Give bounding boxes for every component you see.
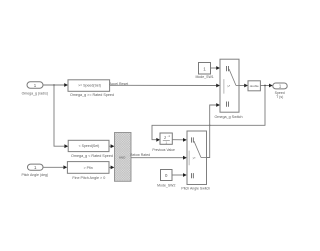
label Speed T (s) [275,91,285,99]
svg-text:< Speed(Set): < Speed(Set) [79,144,100,148]
switch U2 Pitch Angle Switch [187,131,207,185]
wire double to outport [260,84,272,88]
svg-text:Mode_SW1: Mode_SW1 [195,75,213,79]
inport Pitch Angle (deg) [28,164,44,170]
node junction after double [264,85,266,87]
data type conversion double [248,81,260,91]
wire Below Rated to Pitch Angle Switch [131,156,187,160]
compare block Omega_g >= Rated Speed [68,80,110,92]
wire Pitch Angle Switch output up to Omega_g Switch input 3 [207,103,221,157]
svg-text:Omega_g Switch: Omega_g Switch [214,115,242,119]
svg-text:Mode_SW2: Mode_SW2 [157,183,175,187]
wire feedback from output down to Previous Value [152,86,265,142]
wire Previous Value to Pitch Angle Switch [172,138,187,142]
svg-text:T (s): T (s) [276,95,283,99]
wire inport1 to compare block [43,83,68,87]
svg-text:Fine Pitch Angle > 0: Fine Pitch Angle > 0 [72,176,105,180]
wire junction down to lower compare block [54,85,68,148]
wire Omega_g Switch to double [239,84,248,88]
inport Omega_g (rad/s) [27,82,43,88]
wire Accel Reset to Omega_g Switch [110,84,220,88]
logical operator AND [115,133,132,182]
svg-text:double: double [250,84,259,88]
svg-text:Pitch Angle (deg): Pitch Angle (deg) [21,173,48,177]
node junction on Omega_g wire [53,84,55,86]
switch U1 Omega_g Switch [220,59,239,112]
svg-text:Below Rated: Below Rated [130,153,150,157]
svg-text:Omega_g (rad/s): Omega_g (rad/s) [22,92,48,96]
svg-text:>= Speed(Set): >= Speed(Set) [78,84,101,88]
wire Mode_SW2 to Pitch Angle Switch [172,173,187,177]
svg-text:Accel Reset: Accel Reset [109,82,128,86]
wire inport2 to compare3 [43,165,67,169]
node crossing of feedback and switch wire [209,125,211,127]
svg-text:z: z [164,135,166,140]
svg-text:> Pfin: > Pfin [84,166,93,170]
unit delay Previous Value [160,133,172,145]
wire compare2 to AND [109,144,114,148]
outport Speed T (s) [273,83,287,89]
wire compare3 to AND [109,166,114,170]
constant Mode_SW2 [161,170,173,181]
svg-text:Previous Value: Previous Value [152,148,175,152]
wire Mode_SW1 to Omega_g Switch [211,66,221,70]
svg-text:-1: -1 [167,134,170,138]
svg-text:1: 1 [203,66,206,71]
svg-text:AND: AND [119,156,126,160]
svg-text:Omega_g < Rated Speed: Omega_g < Rated Speed [71,154,113,158]
svg-text:0: 0 [165,173,168,178]
svg-text:Pitch Angle Switch: Pitch Angle Switch [181,186,210,190]
constant Mode_SW1 [199,63,211,75]
svg-text:Omega_g >= Rated Speed: Omega_g >= Rated Speed [70,93,114,97]
compare block Omega_g < Rated Speed [68,140,109,151]
compare block Fine Pitch Angle > 0 [67,162,109,174]
